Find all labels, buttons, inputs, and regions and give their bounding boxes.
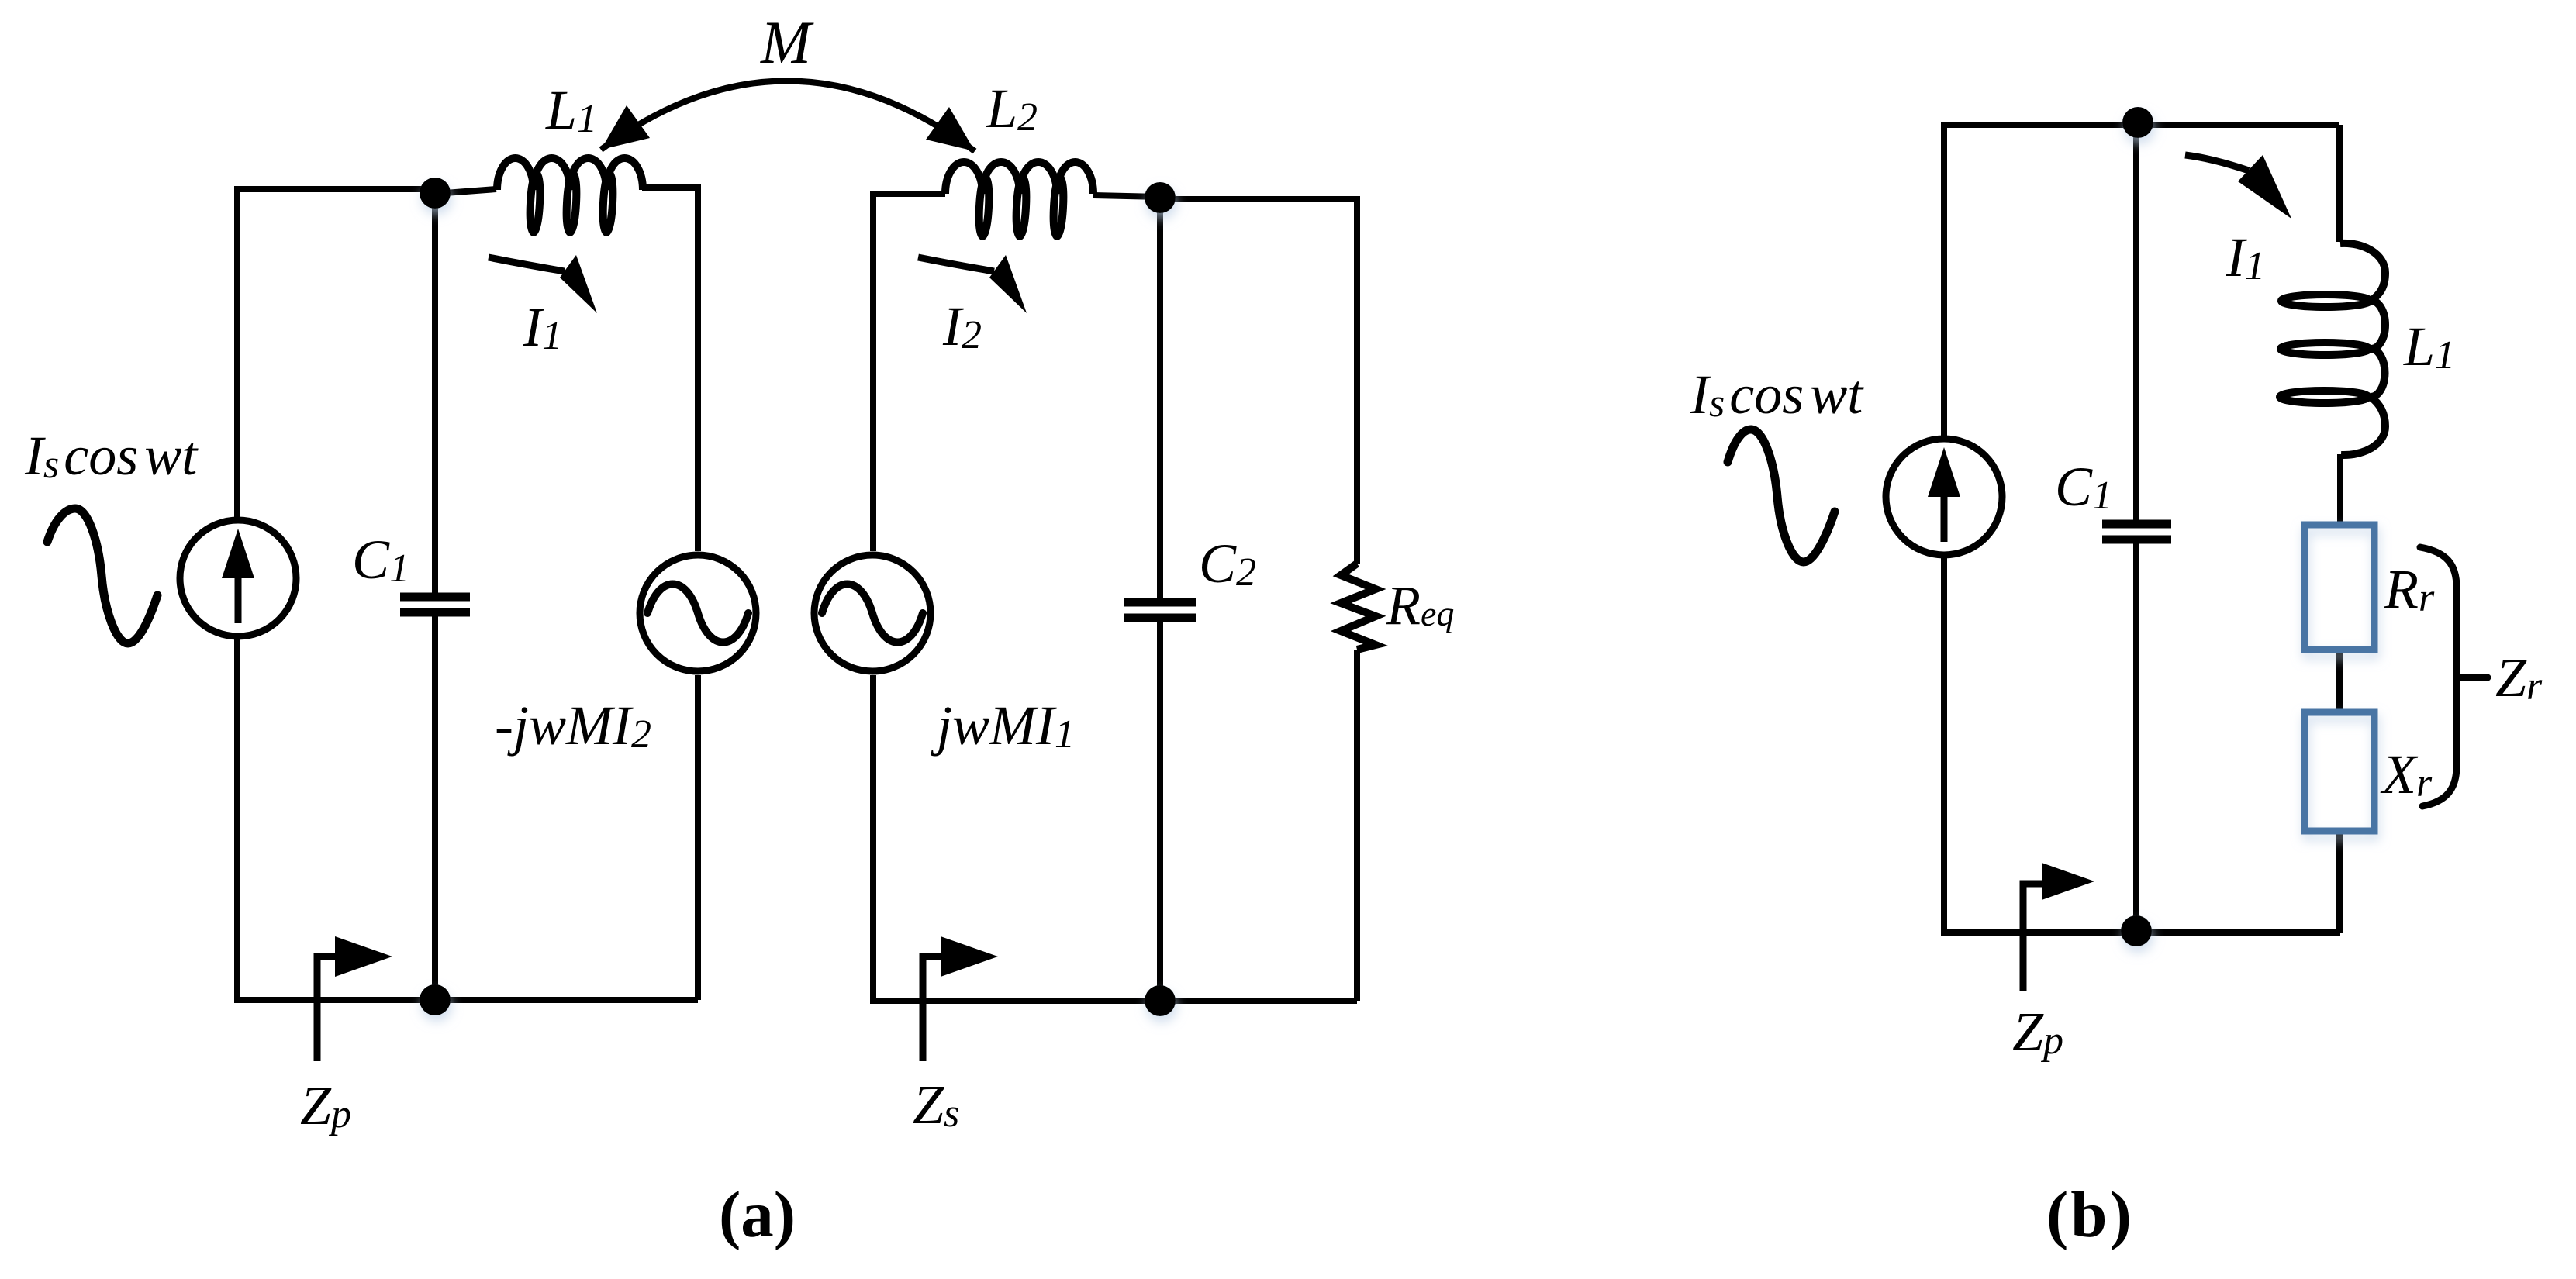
svg-text:(b): (b)	[2046, 1178, 2134, 1251]
svg-text:jwMI1: jwMI1	[931, 695, 1075, 757]
svg-text:(a): (a)	[719, 1178, 796, 1251]
svg-text:M: M	[760, 9, 814, 76]
svg-text:-jwMI2: -jwMI2	[495, 695, 651, 757]
